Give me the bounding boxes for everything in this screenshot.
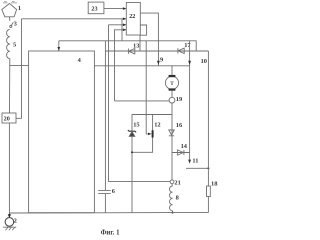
svg-text:17: 17: [184, 42, 191, 49]
wire 19 down: [171, 103, 173, 180]
zener 15: [128, 115, 136, 213]
ground hatching: [3, 227, 16, 230]
terminal 19: [169, 97, 175, 103]
node dot: [131, 151, 133, 153]
motor stem: [171, 66, 173, 75]
top rail: [105, 50, 208, 52]
inductor L5: [7, 29, 10, 58]
svg-text:11: 11: [192, 157, 198, 164]
svg-text:3: 3: [14, 20, 17, 27]
wire L3 feedback from brush 19: [115, 30, 126, 101]
motor supply line y66: [94, 65, 189, 67]
wire L1 railB to unit22: [22, 18, 126, 20]
wire out2 jog of 22: [140, 25, 147, 51]
svg-text:9: 9: [160, 56, 163, 63]
svg-text:13: 13: [133, 42, 139, 49]
svg-text:12: 12: [154, 122, 160, 129]
svg-text:19: 19: [176, 96, 182, 103]
svg-text:18: 18: [211, 180, 217, 187]
diode 16: [169, 130, 174, 136]
switch 3: [10, 22, 14, 27]
wire right arrow line 10 branch: [189, 41, 191, 153]
arrow 9 line: [157, 61, 160, 65]
svg-text:4: 4: [78, 57, 82, 64]
svg-text:Фиг. 1: Фиг. 1: [101, 230, 120, 237]
resistor 18: [207, 186, 211, 197]
diode 14: [178, 150, 184, 155]
unit 4: [29, 51, 95, 213]
box 20: [2, 113, 16, 123]
svg-text:16: 16: [176, 122, 183, 129]
wire (rail A) coil to box20: [9, 59, 11, 113]
diode 13: [128, 49, 134, 54]
wire pentagon to switch: [9, 17, 11, 21]
svg-text:14: 14: [181, 143, 188, 150]
inductor L8: [169, 186, 172, 211]
svg-text:6: 6: [112, 188, 116, 195]
wire out1 of 22: [140, 13, 158, 66]
svg-text:20: 20: [4, 116, 10, 123]
bracket line y114.5: [132, 114, 172, 116]
winding tap terminal 21: [170, 180, 174, 184]
box 23: [88, 2, 104, 14]
arrow into earth electrode: [8, 214, 10, 218]
wire branch x122: [121, 19, 123, 41]
rail B (switch to box20): [16, 19, 22, 119]
diode 14 line: [172, 152, 190, 154]
node dot: [207, 167, 209, 169]
wire rail A to box4 left: [9, 64, 28, 66]
wire (rail A) box20 to ground junction: [8, 123, 10, 217]
rail left corner up: [104, 41, 106, 51]
wire stub to unit22 in3: [109, 24, 126, 26]
wire motor to brush terminal 19: [171, 91, 173, 98]
wire 21 to coil: [171, 184, 173, 186]
svg-text:2: 2: [14, 218, 17, 225]
wire down to winding tap 21: [109, 25, 171, 182]
svg-text:15: 15: [133, 121, 139, 128]
element 12 (controlled electrode): [132, 41, 153, 153]
svg-text:23: 23: [91, 6, 97, 13]
svg-text:8: 8: [176, 195, 179, 202]
box 22: [126, 3, 140, 36]
arrow into unit4 top: [58, 41, 60, 51]
earth electrode 2: [5, 218, 14, 227]
motor M (tachogenerator): [165, 75, 178, 91]
svg-text:10: 10: [201, 58, 207, 65]
wire feed line y41: [59, 41, 196, 51]
right rail 10: [207, 51, 209, 186]
svg-text:1: 1: [18, 5, 21, 12]
antenna 1 (pentagon): [2, 2, 17, 17]
node dot: [172, 212, 174, 214]
diode 17: [178, 48, 184, 53]
contact 11: [186, 153, 208, 169]
svg-text:22: 22: [129, 13, 135, 20]
svg-text:21: 21: [174, 179, 180, 186]
capacitor line x105: [104, 51, 106, 190]
bottom rail: [9, 211, 208, 214]
wire 23 to 22: [104, 8, 125, 10]
capacitor C6: [98, 190, 111, 193]
svg-text:5: 5: [13, 41, 16, 48]
svg-text:T: T: [170, 81, 174, 87]
